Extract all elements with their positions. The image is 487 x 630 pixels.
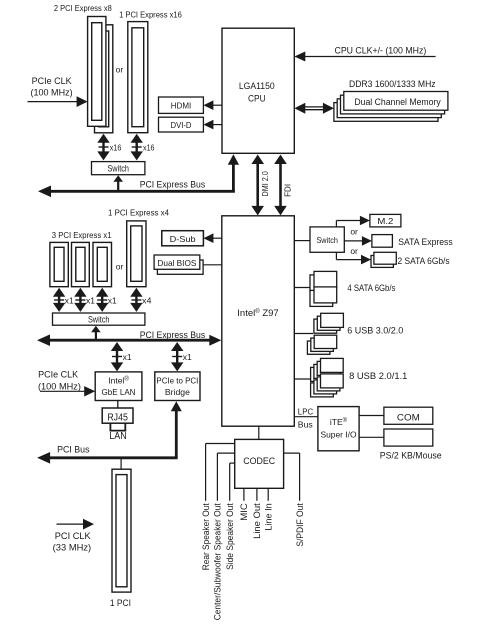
svg-text:RJ45: RJ45 <box>107 413 128 424</box>
svg-text:PCI Express Bus: PCI Express Bus <box>140 330 206 340</box>
svg-text:(33 MHz): (33 MHz) <box>53 543 91 553</box>
svg-text:PCIe CLK: PCIe CLK <box>38 370 78 380</box>
svg-text:Side Speaker Out: Side Speaker Out <box>225 503 235 570</box>
svg-text:Line In: Line In <box>264 503 274 530</box>
svg-text:PCIe CLK: PCIe CLK <box>32 76 72 86</box>
svg-text:LGA1150: LGA1150 <box>239 81 275 92</box>
svg-text:PS/2 KB/Mouse: PS/2 KB/Mouse <box>380 451 442 461</box>
svg-text:DMI 2.0: DMI 2.0 <box>260 171 270 196</box>
svg-text:LAN: LAN <box>109 431 127 442</box>
svg-text:or: or <box>350 246 358 256</box>
svg-text:PCI Express Bus: PCI Express Bus <box>140 180 206 190</box>
svg-text:x1: x1 <box>86 296 95 306</box>
svg-text:2 PCI Express x8: 2 PCI Express x8 <box>54 3 112 13</box>
svg-text:8 USB 2.0/1.1: 8 USB 2.0/1.1 <box>349 371 407 381</box>
svg-text:6 USB 3.0/2.0: 6 USB 3.0/2.0 <box>347 325 403 335</box>
svg-text:Center/Subwoofer Speaker Out: Center/Subwoofer Speaker Out <box>213 503 223 620</box>
svg-text:1 PCI: 1 PCI <box>110 598 131 608</box>
svg-text:Bridge: Bridge <box>165 387 190 397</box>
svg-text:SATA Express: SATA Express <box>398 237 453 247</box>
svg-text:Switch: Switch <box>88 314 110 324</box>
svg-text:MIC: MIC <box>239 503 249 521</box>
svg-text:x1: x1 <box>123 352 132 362</box>
svg-text:Super I/O: Super I/O <box>321 429 357 439</box>
svg-text:LPC: LPC <box>298 406 313 416</box>
svg-text:PCI CLK: PCI CLK <box>55 531 91 541</box>
svg-text:(100 MHz): (100 MHz) <box>31 87 73 97</box>
svg-text:GbE LAN: GbE LAN <box>102 387 136 397</box>
svg-text:2 SATA 6Gb/s: 2 SATA 6Gb/s <box>398 256 451 266</box>
svg-text:DVI-D: DVI-D <box>171 120 192 130</box>
svg-text:Switch: Switch <box>107 163 129 173</box>
svg-text:x1: x1 <box>65 296 74 306</box>
svg-text:PCIe to PCI: PCIe to PCI <box>156 376 198 386</box>
svg-text:(100 MHz): (100 MHz) <box>38 381 81 391</box>
svg-text:or: or <box>116 262 124 272</box>
svg-text:x16: x16 <box>110 142 122 152</box>
svg-text:1 PCI Express x4: 1 PCI Express x4 <box>108 207 169 217</box>
svg-text:PCI Bus: PCI Bus <box>57 445 90 455</box>
svg-text:DDR3 1600/1333 MHz: DDR3 1600/1333 MHz <box>349 79 436 89</box>
svg-text:Rear Speaker Out: Rear Speaker Out <box>201 503 211 570</box>
svg-text:Bus: Bus <box>298 420 313 430</box>
svg-text:M.2: M.2 <box>377 216 393 226</box>
svg-text:FDI: FDI <box>283 184 293 197</box>
svg-text:Dual BIOS: Dual BIOS <box>157 258 196 268</box>
svg-text:Switch: Switch <box>316 235 338 245</box>
svg-text:4 SATA 6Gb/s: 4 SATA 6Gb/s <box>347 283 395 293</box>
svg-text:D-Sub: D-Sub <box>170 234 196 244</box>
svg-text:3 PCI Express x1: 3 PCI Express x1 <box>52 230 112 240</box>
svg-text:COM: COM <box>397 413 420 424</box>
svg-text:Line Out: Line Out <box>252 503 262 539</box>
svg-text:Dual Channel Memory: Dual Channel Memory <box>354 97 441 107</box>
svg-text:CPU CLK+/- (100 MHz): CPU CLK+/- (100 MHz) <box>335 46 427 56</box>
svg-text:or: or <box>116 65 124 75</box>
svg-text:x1: x1 <box>183 352 192 362</box>
svg-text:CPU: CPU <box>248 94 266 105</box>
svg-text:x16: x16 <box>143 142 155 152</box>
svg-text:S/PDIF Out: S/PDIF Out <box>295 503 305 547</box>
svg-text:1 PCI Express x16: 1 PCI Express x16 <box>119 10 182 20</box>
svg-text:CODEC: CODEC <box>243 456 275 467</box>
svg-text:x4: x4 <box>142 296 152 306</box>
svg-text:HDMI: HDMI <box>171 101 192 111</box>
svg-text:x1: x1 <box>108 296 117 306</box>
svg-text:or: or <box>350 227 358 237</box>
